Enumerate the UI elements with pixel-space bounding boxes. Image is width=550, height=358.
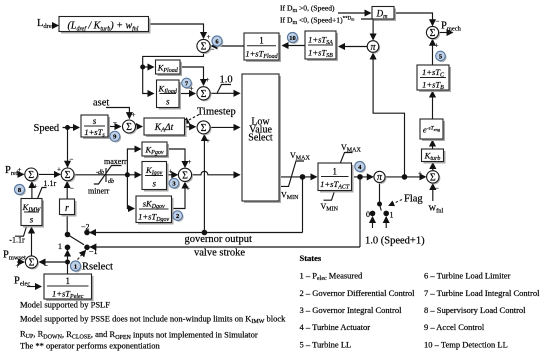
wire sumD to LVS [210,126,240,128]
sum D (accel) [197,121,210,134]
wire sum-fuel to Kturb [432,163,434,171]
wire boxA to sumA [149,24,204,38]
limit tick -1.1r [15,227,27,237]
svg-text:7 – Turbine Load Integral Cont: 7 – Turbine Load Integral Control [424,288,540,298]
svg-text:−: − [113,119,117,127]
wire pi-top to TSA box [339,46,368,48]
svg-text:−: − [436,18,440,26]
svg-text:s: s [30,215,34,225]
wire governor output line [90,232,303,234]
state 6 [212,36,222,46]
block Low Value Select [242,74,281,203]
svg-text:3 – Governor Integral Control: 3 – Governor Integral Control [300,305,403,315]
svg-text:−: − [44,262,48,270]
svg-text:1: 1 [58,242,62,251]
wire KIgov to sumG [167,174,178,176]
state 3 [169,178,179,188]
wire sTs box to sumC [108,126,121,128]
wire pelec junction to summwset [40,261,68,263]
svg-text:4 – Turbine Actuator: 4 – Turbine Actuator [300,322,371,332]
wire Pref input [18,173,24,175]
wire sumA down to load blocks [143,52,204,93]
svg-text:+: + [435,42,439,50]
svg-text:6 – Turbine Load Limiter: 6 – Turbine Load Limiter [424,271,511,281]
wire r to sumF [66,182,68,199]
sum F (droop) [61,168,74,181]
wire governor output vertical [302,177,304,233]
sum C (aset) [123,120,136,133]
block 1/(1+sTACT) [318,163,354,193]
wire speed to sumF [67,128,69,167]
wire ifdm1 to Dm [338,12,371,14]
wire ebox to TCTB [432,92,434,119]
wire summwset to KIMW [31,228,33,257]
limit tick 1.1r [38,188,47,199]
svg-text:1: 1 [74,263,77,270]
wire TSA box to Fload box [283,45,306,47]
svg-text:Σ: Σ [29,258,35,269]
svg-text:Σ: Σ [65,170,71,181]
svg-text:10: 10 [289,35,296,42]
wire KIMW to sumE [31,182,33,199]
main text labels [3,18,462,288]
svg-text:1+sTs: 1+sTs [84,127,105,139]
wire sumC to KaDt [135,126,142,128]
svg-text:−: − [435,185,439,193]
wire pi to sum-fuel [385,176,426,178]
svg-text:0: 0 [366,210,370,219]
svg-text:+: + [418,170,422,178]
wire valve stroke vertical [359,177,361,247]
block r [60,199,77,217]
svg-text:+: + [188,158,192,166]
block e^-sTeng [420,119,445,141]
wire Kturb to ebox [432,141,434,149]
svg-text:Flag: Flag [404,194,423,205]
state 4 [355,161,365,171]
wire valve stroke line [90,246,360,248]
svg-text:Σ: Σ [201,123,207,134]
svg-text:Model supported by PSSE does n: Model supported by PSSE does not include… [20,314,286,326]
block KPload [156,60,183,76]
svg-text:maxerr: maxerr [104,157,127,166]
svg-text:+: + [57,166,61,174]
dashed Rselect pointer [78,251,86,260]
wire Ldref input [55,25,59,27]
svg-text:db: db [108,179,114,185]
svg-text:Select: Select [248,133,273,144]
state circle shadows [16,34,447,273]
svg-text:+: + [169,168,173,176]
wire TCTB to sumP [432,40,434,65]
wire Speed input [63,127,80,129]
summers and multipliers [25,26,439,268]
summer shadows [26,28,440,270]
svg-text:governor output: governor output [185,234,252,245]
svg-text:aset: aset [93,98,109,109]
states list [300,253,541,350]
svg-text:−: − [70,185,74,193]
wire r box down to switch common [66,215,68,235]
svg-text:8 – Supervisory Load Control: 8 – Supervisory Load Control [424,305,526,315]
svg-text:-db: -db [96,170,104,176]
svg-text:+: + [190,85,194,93]
wire KDgov to sumG [172,183,186,209]
wire junction to KPgov [127,149,140,175]
svg-text:s: s [152,179,156,189]
svg-text:5 – Turbine LL: 5 – Turbine LL [300,340,352,350]
state 1 [70,261,80,271]
block 1/(1+sTFload) [244,33,281,62]
block (1+sTC)/(1+sTB) [417,65,451,92]
svg-text:1.0 (Speed+1): 1.0 (Speed+1) [365,236,425,247]
svg-text:+: + [18,166,22,174]
block (Ldref/Kturb)+wfnl [59,17,151,34]
plus minus signs [16,18,440,270]
svg-text:Σ: Σ [430,172,436,183]
svg-text:2 – Governor Differential Cont: 2 – Governor Differential Control [300,288,416,298]
wire sumG to LVS with hop [191,171,239,175]
svg-text:The ** operator performs expon: The ** operator performs exponentiation [20,341,160,351]
block Kturb [422,149,446,164]
dashed Timestep pointer [183,115,199,124]
wire pi to flag switch [379,182,381,202]
svg-text:+: + [132,111,136,119]
state 9 [110,131,120,141]
block 1/(1+sTPelec) [44,274,94,301]
svg-text:Model supported by PSLF: Model supported by PSLF [20,300,110,310]
block Ka dt [144,118,187,137]
wire flag 0 input [372,217,374,228]
svg-text:Σ: Σ [28,170,34,181]
block s/(1+sTs) [81,115,110,139]
pi top (temp) [367,41,379,53]
block KIload/s [157,80,182,110]
block KPgov [142,142,169,158]
state 10 [287,32,297,42]
svg-text:1: 1 [332,167,337,177]
TACT vmin tick [324,191,335,200]
block KIMW/s [21,199,44,228]
sum A (load limit error) [197,39,210,52]
dashed Flag pointer [389,200,402,206]
wire Dm to sumP [394,13,433,25]
wire fuel feedback to pi-top [373,54,404,177]
svg-text:Σ: Σ [430,28,436,39]
wire KPload to sumB [180,67,204,85]
svg-text:Speed: Speed [34,123,60,134]
svg-text:10 – Temp Detection LL: 10 – Temp Detection LL [424,340,508,350]
state 7 [182,78,192,88]
svg-text:s: s [166,97,170,107]
wire Pelec input [27,286,41,288]
block sKDgov/(1+sTDgov) [136,196,174,225]
sum fuel [427,171,439,183]
wire junction to KIgov [127,174,140,176]
wire Pmwset input [17,261,24,263]
wire sumF through deadband [74,174,128,176]
svg-text:9 – Accel Control: 9 – Accel Control [424,322,485,332]
svg-text:valve stroke: valve stroke [194,248,245,259]
notes bottom left [20,300,286,351]
svg-text:1: 1 [65,276,70,286]
svg-text:Σ: Σ [126,122,132,133]
blocks [21,7,451,302]
wire wfnl to sum-fuel [432,184,434,201]
deadband glyph [94,166,122,185]
svg-text:Timestep: Timestep [197,107,236,118]
wire junction to KDgov [127,175,134,209]
svg-text:+: + [16,262,20,270]
svg-text:+: + [34,183,38,191]
sum E (Pref) [25,168,38,181]
state 5 [436,51,446,61]
pi fuel [374,171,385,182]
svg-text:1: 1 [390,211,394,220]
wire sumP output Pmech [438,32,452,34]
sum Pmech [426,26,438,38]
wire flag lever [380,204,382,211]
svg-text:Σ: Σ [201,89,207,100]
sum B (load limit PI) [197,87,210,100]
state 8 [14,184,24,194]
numbered state circles [14,32,445,271]
sum mwset [25,256,37,268]
svg-text:r: r [65,203,69,214]
wire KaDt to sumD [185,126,196,128]
svg-text:s: s [93,116,97,126]
svg-text:minerr: minerr [88,187,110,196]
wire aset to sumC [106,108,129,119]
svg-text:+: + [186,185,190,193]
block Dm [372,7,396,22]
wire sumE to sumF [37,173,60,175]
wire flag 1 input [385,217,387,228]
wire KIload to sumB [179,93,195,95]
sum G (PID) [178,168,191,181]
svg-text:Σ: Σ [182,170,188,181]
svg-text:+: + [206,137,210,145]
switch lever Rselect [68,235,85,245]
svg-text:1 – Pelec Measured: 1 – Pelec Measured [300,271,364,283]
wire LVS to TACT [279,176,317,178]
svg-text:+: + [206,76,210,84]
wire ifdm2 to pi-top [361,19,373,40]
svg-text:−: − [211,46,215,54]
svg-text:2: 2 [176,213,179,220]
svg-text:States: States [300,253,322,263]
svg-text:1.0: 1.0 [220,75,233,86]
svg-text:+: + [207,33,211,41]
svg-text:1.1r: 1.1r [44,179,57,188]
wire TACT to pi [354,176,373,178]
wire KPgov to sumG [167,149,185,167]
svg-text:−2: −2 [81,223,90,232]
svg-text:−: − [70,156,74,164]
wire junction to KPload [143,66,154,68]
limit tick 1.0 [217,85,231,94]
state 2 [173,211,183,221]
svg-text:-1.1r: -1.1r [9,236,25,245]
svg-text:−1: −1 [89,247,98,256]
svg-text:1: 1 [259,36,264,46]
TACT vmax tick [341,153,353,163]
limiter glyph at LVS output [281,161,305,186]
svg-text:Rselect: Rselect [82,262,113,273]
svg-text:Σ: Σ [201,42,207,53]
wire accel feedback [203,135,205,233]
wire pelecbox up to switch [67,251,69,275]
block KIgov/s [142,162,169,192]
wire sumB to LVS [210,92,240,94]
block (1+sTSA)/(1+sTSB) [305,31,338,61]
wire Fload box to sumA [212,45,245,47]
